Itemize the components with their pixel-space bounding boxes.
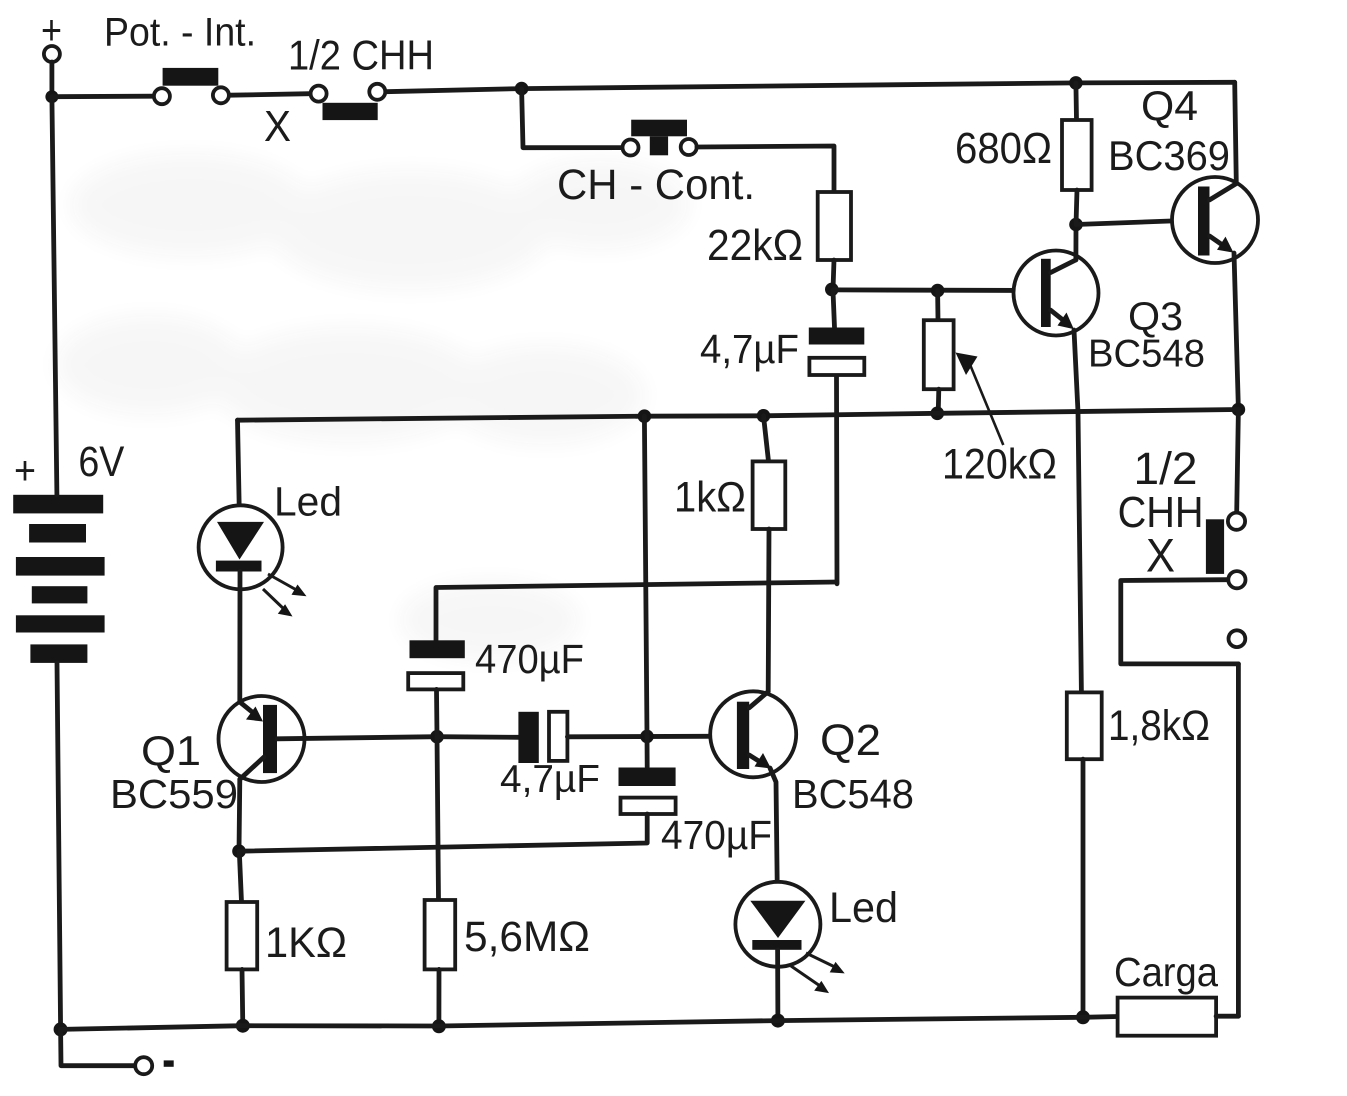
wire top rail segment to Pot.-Int. switch bbox=[52, 94, 153, 99]
svg-text:470µF: 470µF bbox=[475, 636, 584, 682]
wire Q1 collector down to node bbox=[237, 779, 243, 851]
LED D1 bbox=[199, 479, 342, 617]
svg-text:Carga: Carga bbox=[1114, 949, 1218, 995]
svg-text:Led: Led bbox=[829, 884, 898, 932]
battery B1 6V bbox=[13, 438, 124, 663]
capacitor C2 470uF bbox=[408, 636, 584, 689]
resistor R 1K (Q1 collector load) bbox=[227, 851, 347, 1025]
node bottom rail left junction bbox=[54, 1022, 68, 1036]
load Carga bbox=[1114, 949, 1238, 1036]
resistor R 1k (Q2 collector load) bbox=[674, 416, 785, 692]
wire battery positive lead bbox=[52, 97, 57, 495]
svg-text:6V: 6V bbox=[78, 438, 124, 486]
wire 470uF C2 bottom stub bbox=[434, 689, 439, 736]
wire Q1 base wire bbox=[277, 737, 437, 739]
transistor Q3 BC548 bbox=[1014, 251, 1206, 376]
node 120k pot top junction bbox=[931, 284, 945, 298]
wire Q2 emitter down to LED2 bbox=[770, 768, 777, 901]
svg-text:4,7µF: 4,7µF bbox=[500, 758, 600, 801]
wire Q4 emitter down to middle rail bbox=[1234, 253, 1238, 410]
switch Pot.-Int. bbox=[104, 11, 256, 105]
node bottom rail at 5,6M bbox=[432, 1019, 446, 1033]
resistor R 22k bbox=[707, 192, 851, 270]
svg-text:Q4: Q4 bbox=[1141, 82, 1198, 129]
svg-text:1/2: 1/2 bbox=[1134, 443, 1198, 494]
wire LED2 down to bottom rail bbox=[775, 950, 780, 1021]
resistor R 5,6M bbox=[425, 737, 590, 1027]
wire C3 to Q2 base bbox=[567, 734, 737, 739]
svg-text:+: + bbox=[14, 449, 36, 493]
wire middle rail corner down to LED1 bbox=[238, 420, 240, 522]
wire battery negative lead down left side bbox=[57, 663, 61, 1030]
node 22k/Q3 base junction bbox=[825, 283, 839, 297]
capacitor C3 4,7uF (coupling) bbox=[437, 712, 600, 801]
node middle rail at 1k bbox=[757, 409, 771, 423]
node 120k pot bottom junction bbox=[931, 407, 945, 421]
wire 4,7uF bottom down to lower horizontal wire bbox=[834, 376, 839, 584]
svg-text:BC369: BC369 bbox=[1108, 132, 1230, 179]
svg-text:CH - Cont.: CH - Cont. bbox=[557, 161, 755, 209]
transistor Q2 BC548 bbox=[710, 691, 914, 817]
terminal - (negative) bbox=[61, 1029, 174, 1074]
capacitor C 4,7uF (top) bbox=[700, 291, 864, 375]
wire C4 bottom to Q1 collector node bbox=[239, 814, 647, 851]
node middle rail right end bbox=[1232, 403, 1246, 417]
svg-text:BC548: BC548 bbox=[1088, 333, 1205, 376]
node Q1 base junction bbox=[430, 730, 444, 744]
svg-text:Q2: Q2 bbox=[820, 716, 881, 765]
capacitor C4 470uF bbox=[619, 736, 773, 858]
terminal + (positive supply) bbox=[41, 6, 62, 62]
svg-text:X: X bbox=[1146, 529, 1175, 582]
wire right edge top corner down to Q4 collector bbox=[1235, 82, 1237, 183]
node middle rail at mid vertical bbox=[638, 409, 652, 423]
svg-text:5,6MΩ: 5,6MΩ bbox=[464, 913, 590, 961]
svg-text:1KΩ: 1KΩ bbox=[265, 919, 347, 967]
node bottom rail at 1K bbox=[236, 1019, 250, 1033]
node top rail branch junction bbox=[515, 82, 529, 96]
svg-text:Q1: Q1 bbox=[141, 727, 201, 774]
svg-text:Pot. - Int.: Pot. - Int. bbox=[104, 11, 256, 55]
svg-text:1/2 CHH: 1/2 CHH bbox=[288, 32, 434, 79]
wire LED1 cathode down to Q1 emitter bbox=[237, 572, 242, 703]
svg-text:1,8kΩ: 1,8kΩ bbox=[1108, 702, 1210, 750]
wire between Pot.-Int. and 1/2 CHH switch bbox=[229, 94, 310, 96]
wire Q3 base wire bbox=[833, 287, 1041, 292]
wire right edge down to Carga bbox=[1236, 664, 1241, 1016]
wire from + terminal to top rail junction bbox=[50, 62, 55, 97]
switch 1/2 CHH X (right) bbox=[1118, 410, 1246, 648]
switch CH-Cont bbox=[557, 120, 755, 209]
wire mid vertical from middle rail to Q2 base node bbox=[644, 416, 647, 736]
svg-text:120kΩ: 120kΩ bbox=[942, 440, 1057, 488]
wire Q3 emitter down through middle rail to 1,8k bbox=[1074, 330, 1081, 692]
LED D2 bbox=[735, 882, 898, 993]
wire 470uF C2 top connection bbox=[436, 582, 837, 643]
svg-text:X: X bbox=[264, 102, 291, 151]
resistor R 1,8k bbox=[1067, 692, 1210, 1017]
switch 1/2 CHH bbox=[264, 32, 434, 151]
svg-text:BC548: BC548 bbox=[792, 771, 914, 817]
wire 22k bottom stub bbox=[833, 260, 834, 289]
wire middle rail bbox=[238, 410, 1239, 421]
wire CH-Cont to 22k resistor bbox=[697, 146, 834, 192]
wire Q3 collector up to Q4 base node bbox=[1074, 225, 1079, 260]
svg-text:22kΩ: 22kΩ bbox=[707, 221, 803, 270]
node bottom rail at LED2 bbox=[771, 1014, 785, 1028]
wire top rail from 1/2 CHH to top-right corner bbox=[386, 82, 1235, 91]
svg-text:BC559: BC559 bbox=[110, 771, 238, 817]
node Q2 base junction bbox=[640, 730, 654, 744]
node top-left junction bbox=[45, 90, 58, 103]
resistor R 680 bbox=[955, 83, 1092, 225]
transistor Q1 BC559 bbox=[110, 696, 305, 817]
svg-text:680Ω: 680Ω bbox=[955, 124, 1052, 173]
node bottom rail at 1,8k bbox=[1076, 1010, 1090, 1024]
svg-text:470µF: 470µF bbox=[661, 812, 772, 858]
wire bottom rail bbox=[61, 1017, 1118, 1030]
transistor Q4 BC369 bbox=[1108, 82, 1258, 263]
svg-text:1kΩ: 1kΩ bbox=[674, 473, 746, 521]
node Q4 base junction bbox=[1069, 218, 1083, 232]
node Q1 collector junction bbox=[232, 844, 246, 858]
wire branch down to CH-Cont switch bbox=[522, 89, 623, 148]
wire switch common U route bbox=[1121, 580, 1239, 664]
wire Q4 base wire bbox=[1076, 220, 1198, 225]
potentiometer 120k bbox=[924, 291, 1057, 489]
svg-text:Led: Led bbox=[274, 479, 342, 525]
node top rail at 680 junction bbox=[1069, 76, 1083, 90]
svg-text:4,7µF: 4,7µF bbox=[700, 326, 799, 372]
